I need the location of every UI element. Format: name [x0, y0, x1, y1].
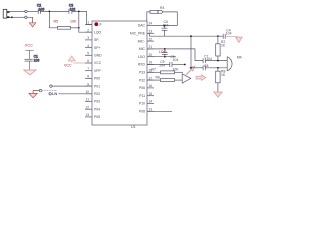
svg-text:7: 7 — [87, 67, 89, 71]
svg-text:R5: R5 — [54, 20, 59, 24]
capacitor C3 — [69, 4, 76, 14]
svg-text:MIC_PRE: MIC_PRE — [130, 32, 146, 36]
resistor R4 — [150, 6, 164, 14]
wire pin 17 through R6 — [147, 79, 161, 81]
wire pin 20 — [147, 56, 176, 58]
node open circle pin 10 — [49, 93, 51, 95]
svg-text:1K: 1K — [221, 73, 226, 77]
svg-text:P02: P02 — [94, 92, 100, 96]
wire pin 13 bottom right — [147, 110, 172, 112]
IC pin 1 dot — [94, 22, 98, 26]
resistor R6 — [156, 75, 175, 81]
node B junction — [78, 11, 80, 13]
capacitor C6 — [162, 20, 169, 36]
node A junction — [49, 11, 51, 13]
svg-text:14: 14 — [149, 100, 153, 104]
svg-text:106: 106 — [34, 59, 40, 63]
svg-text:102: 102 — [70, 7, 76, 11]
IC pin stubs right — [147, 26, 154, 112]
IC U1 body — [92, 21, 147, 125]
svg-text:MIC-: MIC- — [138, 39, 145, 43]
svg-text:104: 104 — [226, 32, 232, 36]
IC pin numbers right — [149, 22, 153, 112]
wire R7 to opamp area — [175, 71, 184, 73]
svg-text:RXD: RXD — [138, 63, 146, 67]
wire R5 to node B — [71, 27, 79, 29]
svg-text:21: 21 — [149, 45, 153, 49]
wire pin 19 — [147, 64, 170, 66]
wire to ground — [27, 17, 32, 22]
svg-text:P32: P32 — [139, 78, 145, 82]
svg-text:8: 8 — [87, 75, 89, 79]
wire R4 left end to IC corner — [147, 12, 150, 21]
junction — [164, 56, 166, 58]
wire pin 24 — [154, 25, 177, 27]
svg-text:15: 15 — [149, 92, 153, 96]
svg-text:VCC: VCC — [25, 44, 33, 48]
capacitor C5 — [170, 55, 179, 67]
svg-text:MK: MK — [237, 56, 243, 60]
svg-text:DAC: DAC — [138, 24, 146, 28]
svg-text:104: 104 — [173, 58, 179, 62]
capacitor C8 — [203, 64, 208, 70]
capacitor C7 — [203, 54, 212, 63]
IC right pin names — [130, 24, 146, 114]
speaker MK1 — [227, 56, 242, 71]
junction on pin21 wire — [164, 48, 166, 50]
wire C1 to ground — [29, 61, 31, 70]
svg-text:P11: P11 — [139, 94, 145, 98]
resistor R7 — [152, 68, 180, 74]
wire pin 21 to C7 row — [147, 49, 203, 61]
ground lower-left — [29, 93, 37, 97]
svg-text:20: 20 — [149, 53, 153, 57]
wire to pin 9 — [52, 85, 92, 87]
svg-text:JI: JI — [99, 23, 102, 27]
svg-text:SP+: SP+ — [94, 46, 101, 50]
svg-text:24: 24 — [149, 22, 153, 26]
svg-text:SP-: SP- — [94, 38, 100, 42]
svg-text:LDO: LDO — [138, 55, 145, 59]
wire branch to C8 — [191, 67, 203, 69]
svg-text:R6: R6 — [156, 75, 160, 79]
junction at C8 row — [190, 67, 192, 69]
node open circle — [39, 89, 41, 91]
svg-text:22: 22 — [149, 37, 153, 41]
wire — [27, 10, 38, 12]
resistor R2 — [216, 36, 226, 60]
connector J1 — [3, 9, 9, 18]
resistor R5 body — [58, 26, 71, 29]
svg-text:P05: P05 — [94, 115, 100, 119]
svg-text:4: 4 — [87, 44, 89, 48]
svg-text:13: 13 — [149, 108, 153, 112]
svg-text:P03: P03 — [94, 100, 100, 104]
svg-text:10K: 10K — [70, 20, 77, 24]
svg-text:C8: C8 — [204, 64, 208, 68]
wire lower from connector — [10, 16, 25, 18]
wire — [40, 10, 68, 12]
wire to pin 1 — [72, 11, 92, 24]
capacitor C4 — [218, 28, 232, 39]
svg-text:P00: P00 — [94, 77, 100, 81]
svg-text:6: 6 — [87, 59, 89, 63]
ground — [29, 23, 35, 27]
svg-text:P04: P04 — [94, 107, 100, 111]
svg-text:204: 204 — [159, 63, 165, 67]
wire branch to C8 row — [190, 36, 192, 68]
svg-text:9: 9 — [87, 82, 89, 86]
svg-text:P06: P06 — [139, 86, 145, 90]
svg-text:19: 19 — [149, 61, 153, 65]
node open circle — [25, 16, 27, 18]
svg-text:R4: R4 — [160, 6, 164, 10]
ground right bottom — [214, 92, 223, 97]
svg-text:13: 13 — [85, 113, 89, 117]
svg-text:VPP: VPP — [94, 69, 102, 73]
junction — [78, 27, 80, 29]
wire node B down to pin 2 — [79, 11, 92, 32]
svg-text:11: 11 — [86, 98, 90, 102]
svg-text:16: 16 — [149, 84, 153, 88]
wire pin 19 after cap — [172, 64, 185, 66]
svg-text:23: 23 — [149, 30, 153, 34]
IC pin numbers left — [85, 21, 89, 117]
capacitor C2 — [37, 4, 45, 14]
capacitor C1 — [25, 55, 40, 63]
wire C7 to speaker — [205, 60, 227, 62]
svg-text:R7: R7 — [152, 68, 156, 72]
IC pin stubs left — [85, 25, 92, 117]
ground right top — [236, 37, 243, 43]
wire from node — [42, 90, 57, 92]
svg-text:P01: P01 — [94, 84, 100, 88]
power VCC bar — [25, 49, 33, 51]
svg-text:10: 10 — [85, 90, 89, 94]
svg-text:LQO: LQO — [94, 30, 102, 34]
svg-text:LN: LN — [52, 92, 57, 96]
wire to pin 10 — [59, 93, 93, 95]
svg-text:MIC: MIC — [139, 47, 146, 51]
svg-text:P33: P33 — [139, 71, 145, 75]
port arrow right — [196, 75, 206, 81]
wire VCC stem — [29, 50, 31, 59]
junction to R2 — [217, 35, 219, 37]
svg-text:P10: P10 — [139, 102, 145, 106]
svg-text:106: 106 — [39, 7, 45, 11]
svg-text:VCC: VCC — [64, 63, 72, 67]
svg-text:17: 17 — [149, 76, 153, 80]
port arrow diagonal — [186, 66, 195, 75]
svg-text:VCC: VCC — [94, 61, 102, 65]
wire C4 to ground — [225, 35, 239, 38]
resistor R5 loop wires — [49, 11, 57, 27]
svg-text:P08: P08 — [139, 110, 145, 114]
node open circle — [25, 10, 27, 12]
resistor R8 — [216, 68, 226, 92]
svg-text:1K: 1K — [221, 43, 226, 47]
power arrow pin6 VCC — [68, 56, 92, 63]
IC left pin names — [94, 23, 102, 119]
wire R6 to opamp — [175, 79, 183, 81]
node open circle pin 9 — [50, 85, 52, 87]
svg-text:2: 2 — [87, 28, 89, 32]
wire C8 to speaker — [205, 67, 227, 69]
svg-text:3: 3 — [87, 36, 89, 40]
svg-text:12: 12 — [85, 105, 89, 109]
ground — [24, 70, 36, 75]
op-amp triangle — [182, 74, 191, 83]
svg-text:U1: U1 — [131, 125, 136, 129]
wire pin 18 through R7 — [147, 71, 161, 73]
svg-text:GND: GND — [94, 54, 102, 58]
junction C6 top — [164, 25, 166, 27]
capacitor C9 vertical — [159, 49, 167, 67]
junction R8 top — [217, 67, 219, 69]
junction at connector — [11, 16, 13, 18]
wire R4 right to pin 24 — [163, 12, 177, 26]
svg-text:1: 1 — [87, 21, 89, 25]
svg-text:10K: 10K — [173, 68, 180, 72]
junction pin19 wire — [184, 64, 186, 66]
svg-text:5: 5 — [87, 52, 89, 56]
wire pin 23 long — [147, 33, 218, 36]
wire ground to node — [33, 91, 39, 94]
wire top from connector — [10, 10, 25, 12]
junction R2 bottom — [217, 60, 219, 62]
junction on pin 23 wire — [190, 35, 192, 37]
